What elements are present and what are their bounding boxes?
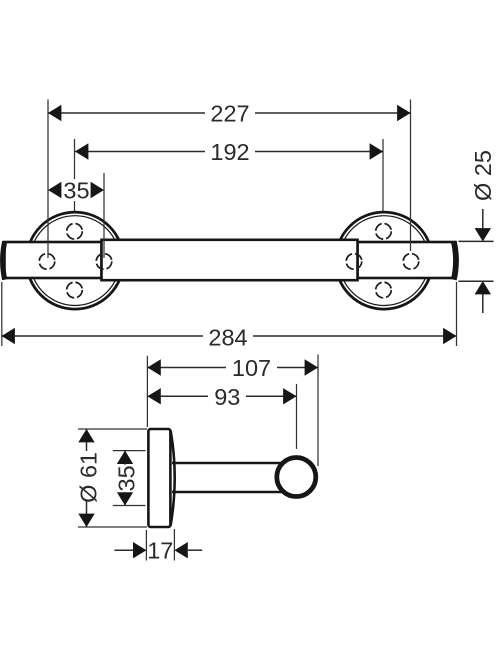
extension line 107 right bbox=[317, 355, 319, 467]
extension line 93 right bbox=[296, 384, 298, 449]
svg-text:35: 35 bbox=[113, 465, 139, 491]
dimension D61 label bbox=[75, 451, 101, 503]
dimension 93 line bbox=[147, 388, 296, 404]
dimension 284 label bbox=[203, 324, 253, 350]
dimension 107 label bbox=[226, 355, 277, 381]
svg-text:35: 35 bbox=[63, 178, 89, 204]
extension line D61 bottom bbox=[78, 526, 147, 528]
right flange inner ring bbox=[339, 216, 429, 306]
side view knob bbox=[277, 458, 316, 497]
right flange screw hole top bbox=[376, 224, 392, 240]
dimension 35 side line bbox=[117, 451, 133, 506]
right wall rod bbox=[358, 241, 457, 279]
extension line 17 right bbox=[173, 529, 175, 561]
side view wall plate bbox=[148, 429, 170, 527]
extension line 284 left bbox=[1, 282, 3, 346]
svg-text:107: 107 bbox=[232, 355, 271, 381]
side view plate dome bbox=[171, 431, 175, 526]
extension line bar top right bbox=[459, 240, 494, 242]
extension line left inner hole bbox=[103, 173, 105, 258]
svg-text:284: 284 bbox=[208, 324, 247, 350]
dimension D25 arrows bbox=[475, 209, 491, 313]
extension line 35 side bottom bbox=[113, 505, 146, 507]
right flange screw hole bottom bbox=[376, 282, 392, 298]
dimension D61 line bbox=[78, 429, 94, 527]
grip tube bbox=[102, 240, 358, 280]
dimension 93 label bbox=[208, 384, 246, 410]
svg-text:Ø 61: Ø 61 bbox=[75, 452, 101, 503]
right flange screw hole right bbox=[403, 254, 419, 270]
extension line bar bottom right bbox=[459, 280, 494, 282]
extension line 35 side top bbox=[113, 450, 146, 452]
extension line 284 right bbox=[456, 282, 458, 346]
left flange screw hole top bbox=[67, 224, 83, 240]
svg-text:Ø 25: Ø 25 bbox=[470, 150, 496, 201]
extension line 107/93 left bbox=[146, 356, 148, 427]
right flange outer ring bbox=[336, 212, 433, 309]
dimension 227 label bbox=[205, 101, 255, 127]
left flange screw hole bottom bbox=[67, 282, 83, 298]
svg-text:192: 192 bbox=[210, 139, 249, 165]
extension line right flange center bbox=[382, 139, 384, 211]
side view arm bottom line bbox=[172, 491, 282, 494]
dimension 192 label bbox=[205, 139, 255, 165]
left wall rod bbox=[3, 241, 102, 279]
dimension 35 arrows bbox=[48, 182, 104, 198]
left flange screw hole left bbox=[39, 254, 55, 270]
extension line right outer hole bbox=[410, 100, 412, 252]
right flange screw hole left bbox=[346, 254, 362, 270]
left flange outer ring bbox=[27, 212, 124, 309]
extension line 17 left bbox=[145, 530, 147, 561]
dimension D25 label bbox=[470, 150, 496, 201]
extension line left flange center bbox=[74, 139, 76, 211]
left flange inner ring bbox=[30, 216, 120, 306]
dimension 284 line bbox=[2, 328, 457, 344]
dimension 227 line bbox=[48, 105, 411, 121]
dimension 35 label bbox=[63, 178, 91, 204]
dimension 17 label bbox=[147, 538, 173, 564]
extension line D61 top bbox=[78, 428, 147, 430]
dimension 107 line bbox=[147, 359, 318, 375]
extension line left outer hole bbox=[47, 100, 49, 259]
dimension 192 line bbox=[75, 143, 383, 159]
svg-text:93: 93 bbox=[214, 384, 240, 410]
dimension 17 arrows bbox=[114, 542, 202, 558]
dimension 35 side label bbox=[113, 465, 139, 493]
side view arm top line bbox=[172, 462, 282, 465]
svg-text:227: 227 bbox=[210, 101, 249, 127]
svg-text:17: 17 bbox=[147, 538, 173, 564]
left flange screw hole right bbox=[96, 254, 112, 270]
